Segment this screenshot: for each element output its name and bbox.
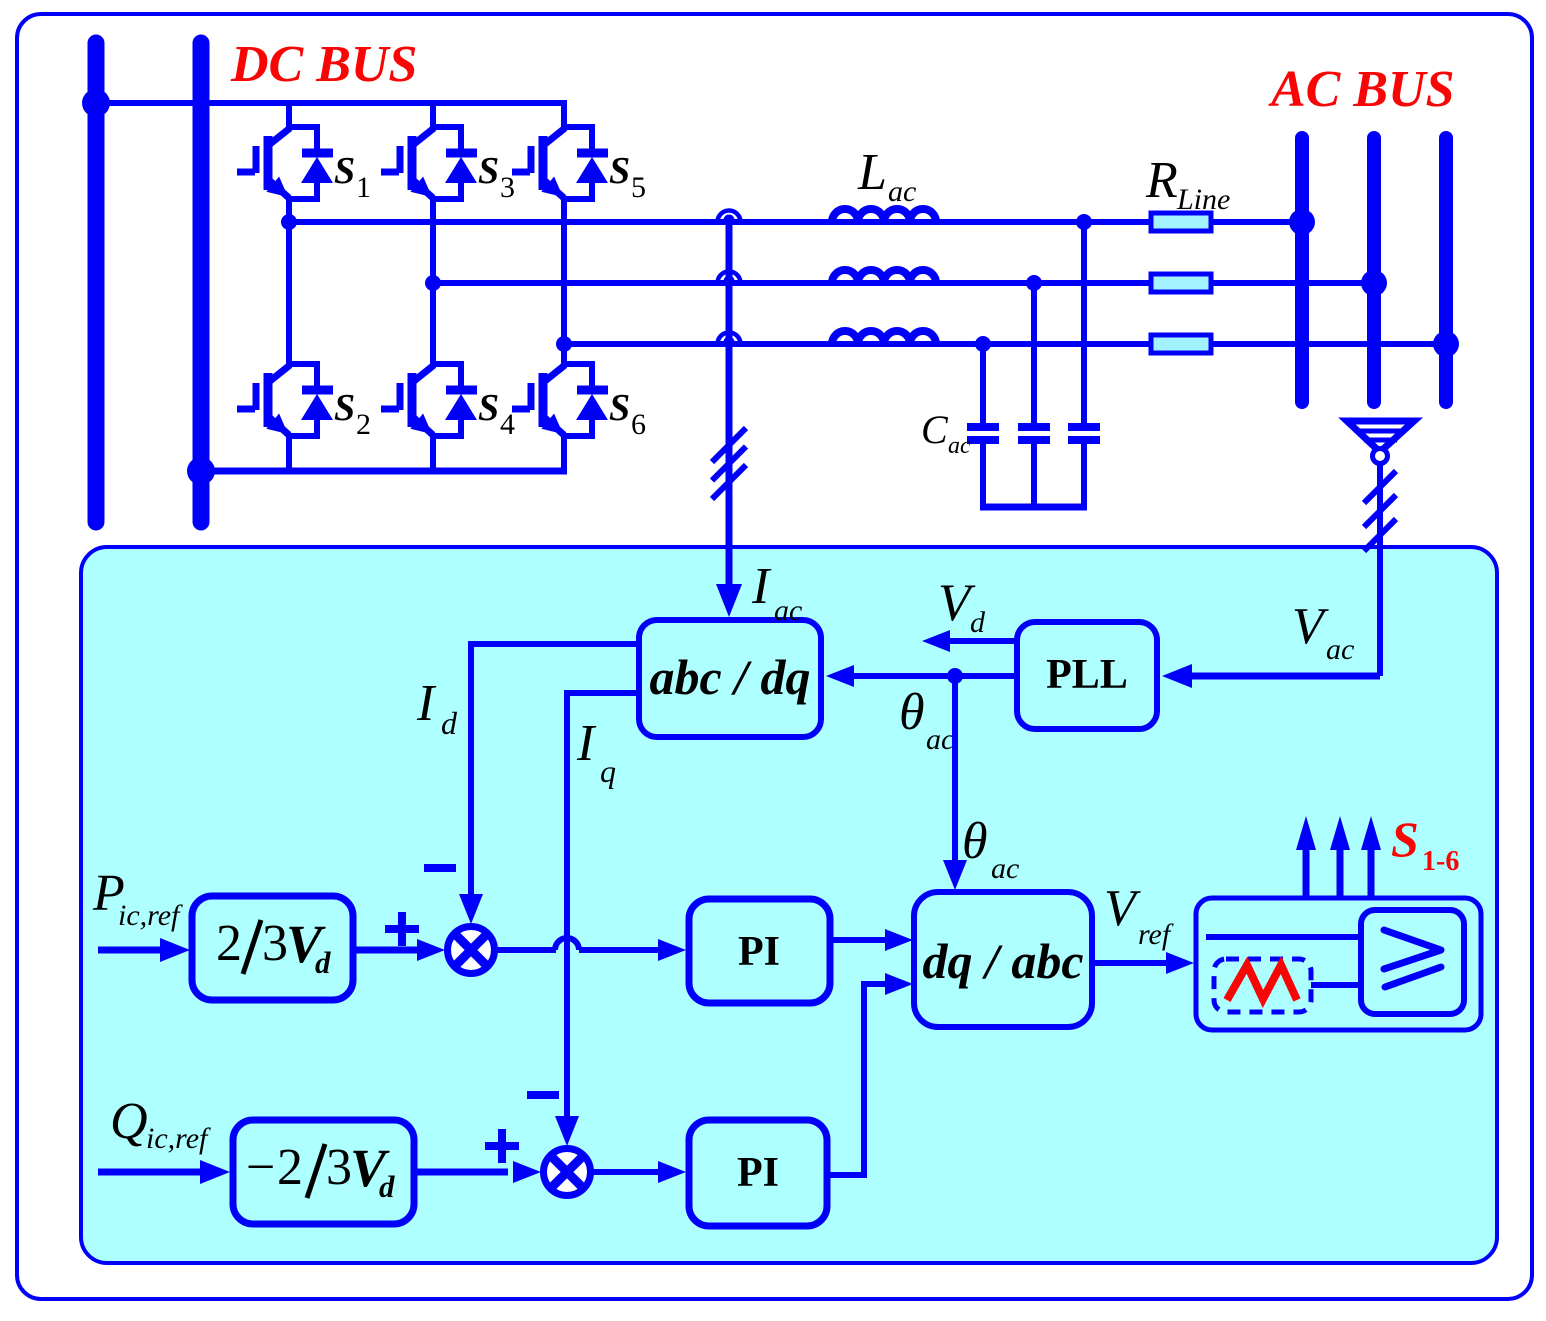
svg-text:1-6: 1-6: [1422, 846, 1459, 877]
comparator >= symbol: [1384, 930, 1441, 969]
capacitor Cac branch B: [1031, 283, 1037, 423]
svg-text:S: S: [334, 150, 355, 192]
svg-text:S: S: [609, 150, 630, 192]
svg-text:S: S: [1391, 811, 1419, 867]
svg-text:5: 5: [631, 171, 646, 204]
svg-text:1: 1: [356, 171, 371, 204]
tap on phase C: [718, 333, 741, 348]
node: cap tap phase C: [975, 336, 991, 352]
wire: PI q out up to dq/abc: [827, 984, 888, 1175]
carrier (triangle wave) box, dashed: [1214, 959, 1311, 1012]
svg-text:I: I: [576, 715, 597, 772]
wire: P input arrow: [98, 947, 165, 954]
svg-text:d: d: [315, 945, 331, 980]
svg-text:dq / abc: dq / abc: [922, 933, 1083, 989]
svg-text:I: I: [751, 558, 772, 615]
svg-text:ic,ref: ic,ref: [146, 1122, 211, 1155]
node: theta junction: [947, 668, 963, 684]
AC bus bar 3: [1439, 138, 1453, 402]
svg-text:PI: PI: [738, 929, 780, 975]
wire: inverter leg b vertical segments: [430, 100, 436, 130]
transistor S3 (IGBT with antiparallel diode): [381, 127, 477, 199]
label minus (sum 2): [527, 1091, 559, 1099]
wire: phase B line: [433, 280, 1374, 286]
wire: Iq from abc/dq to summing junction 2: [567, 693, 639, 1118]
label minus (sum 1): [424, 864, 456, 872]
block PI (q axis): [689, 1120, 827, 1226]
tap on phase B: [718, 272, 741, 287]
svg-text:S: S: [334, 387, 355, 429]
wire: carrier to comparator: [1311, 982, 1361, 988]
svg-text:S: S: [478, 387, 499, 429]
block 2/3Vd: [192, 896, 353, 1000]
wire: current measurement tap (three-phase): [726, 222, 733, 600]
resistor R_Line phase A: [1151, 213, 1211, 231]
block PLL: [1017, 622, 1157, 729]
block PI (d axis): [689, 899, 830, 1003]
svg-text:V: V: [1104, 880, 1141, 937]
AC bus bar 1: [1295, 138, 1309, 402]
svg-text:V: V: [1292, 598, 1329, 655]
transistor S5 (IGBT with antiparallel diode): [512, 127, 608, 199]
inductor Lac phase A: [832, 209, 936, 222]
svg-text:Line: Line: [1176, 183, 1230, 216]
svg-text:S: S: [478, 150, 499, 192]
svg-text:PI: PI: [737, 1150, 779, 1196]
svg-text:ac: ac: [991, 852, 1019, 885]
svg-text:L: L: [857, 144, 887, 201]
wire: Vac measurement line: [1377, 465, 1383, 676]
svg-text:abc / dq: abc / dq: [649, 649, 810, 705]
inductor Lac phase C: [832, 331, 936, 344]
svg-text:Q: Q: [110, 1093, 148, 1150]
wire: inverter leg c vertical segments: [561, 100, 567, 130]
block -2/3Vd: [233, 1120, 414, 1224]
inductor Lac phase B: [832, 270, 936, 283]
comparator box: [1361, 910, 1464, 1014]
svg-text:3: 3: [262, 915, 288, 972]
wire: inverter leg a vertical segments: [286, 100, 292, 130]
three-phase slash marks on Iac line: [712, 428, 746, 462]
svg-text:ac: ac: [774, 594, 802, 627]
svg-text:R: R: [1145, 152, 1178, 209]
svg-text:2: 2: [356, 408, 371, 441]
transistor S4 (IGBT with antiparallel diode): [381, 364, 477, 436]
svg-text:d: d: [441, 705, 458, 741]
wire: Vref input inside PWM: [1206, 934, 1361, 940]
wire: theta_ac down to dq/abc: [952, 676, 958, 868]
gate signal arrows S1-6: [1303, 849, 1310, 898]
label plus (sum 2): [485, 1142, 519, 1150]
wire: phase A line: [289, 219, 1302, 225]
label plus (sum 1): [385, 925, 419, 933]
wire: Vac into PLL: [1186, 673, 1380, 680]
svg-text:θ: θ: [962, 813, 988, 870]
wire: Q input arrow: [98, 1169, 203, 1176]
DC bus bar 2: [193, 43, 210, 522]
node: phase B leg junction: [425, 275, 441, 291]
transistor S6 (IGBT with antiparallel diode): [512, 364, 608, 436]
node: phase C leg junction: [556, 336, 572, 352]
svg-text:3: 3: [326, 1139, 352, 1196]
voltage transducer (probe) on AC bus: [1347, 421, 1414, 464]
svg-text:PLL: PLL: [1046, 652, 1128, 698]
tap on phase A: [718, 211, 741, 226]
wire: 2/3Vd output to summing junction 1: [353, 947, 425, 954]
svg-text:ref: ref: [1138, 918, 1174, 951]
svg-text:d: d: [379, 1169, 395, 1204]
arrow: Iac into abc/dq: [716, 584, 742, 617]
summing junction 1: [448, 927, 495, 974]
svg-text:θ: θ: [899, 684, 925, 741]
wire: sum2 output to PI q: [589, 1169, 660, 1175]
svg-text:3: 3: [500, 171, 515, 204]
svg-text:AC BUS: AC BUS: [1268, 61, 1455, 118]
capacitor Cac branch A: [1081, 222, 1087, 423]
node: phase A / AC bus junction: [1289, 209, 1315, 235]
wire: Vref from dq/abc to PWM: [1092, 960, 1168, 966]
svg-text:d: d: [970, 606, 986, 639]
resistor R_Line phase C: [1151, 335, 1211, 353]
block dq/abc: [914, 892, 1092, 1027]
node: cap tap phase A: [1076, 214, 1092, 230]
node: DC+ junction on bus bar 1: [82, 89, 110, 117]
DC bus bar 1: [88, 43, 105, 522]
wire: Vd output of PLL: [948, 638, 1017, 644]
svg-text:DC BUS: DC BUS: [230, 36, 417, 93]
svg-text:I: I: [416, 675, 437, 732]
svg-text:−: −: [246, 1139, 275, 1196]
svg-text:2: 2: [216, 915, 242, 972]
three-phase slash marks on Vac line: [1364, 471, 1396, 503]
capacitor Cac branch C: [980, 344, 986, 423]
block abc/dq: [639, 620, 821, 737]
wire: PI d out to dq/abc: [830, 937, 888, 943]
node: phase B / AC bus junction: [1361, 270, 1387, 296]
svg-text:ac: ac: [948, 433, 971, 459]
wire: theta_ac from PLL to abc/dq: [850, 673, 1017, 679]
control-area background panel: [81, 547, 1497, 1263]
summing junction 2: [544, 1149, 591, 1196]
wire: DC+ top rail: [96, 100, 567, 106]
resistor R_Line phase B: [1151, 274, 1211, 292]
svg-text:ac: ac: [926, 723, 954, 756]
red triangle carrier wave: [1227, 965, 1297, 1000]
transistor S1 (IGBT with antiparallel diode): [237, 127, 333, 199]
wire: Id from abc/dq to summing junction 1: [471, 644, 639, 896]
svg-text:q: q: [600, 753, 616, 789]
svg-text:S: S: [609, 387, 630, 429]
node: cap tap phase B: [1026, 275, 1042, 291]
svg-text:ac: ac: [888, 175, 916, 208]
svg-text:C: C: [921, 407, 949, 452]
svg-text:ac: ac: [1326, 633, 1354, 666]
svg-text:ic,ref: ic,ref: [118, 899, 183, 932]
transistor S2 (IGBT with antiparallel diode): [237, 364, 333, 436]
node: phase C / AC bus junction: [1433, 331, 1459, 357]
wire: capacitor common rail: [980, 504, 1087, 511]
svg-text:2: 2: [277, 1139, 303, 1196]
node: phase A leg junction: [281, 214, 297, 230]
AC bus bar 2: [1367, 138, 1381, 402]
svg-text:6: 6: [631, 408, 646, 441]
svg-text:4: 4: [500, 408, 515, 441]
node: DC- junction on bus bar 2: [187, 457, 215, 485]
wire: -2/3Vd output to summing junction 2: [414, 1169, 508, 1176]
wire: phase C line: [564, 341, 1446, 347]
wire: DC- bottom rail: [201, 468, 567, 475]
wire: sum1 output to PI (with hop over Iq): [494, 947, 556, 953]
block PWM comparator assembly: [1196, 898, 1481, 1030]
